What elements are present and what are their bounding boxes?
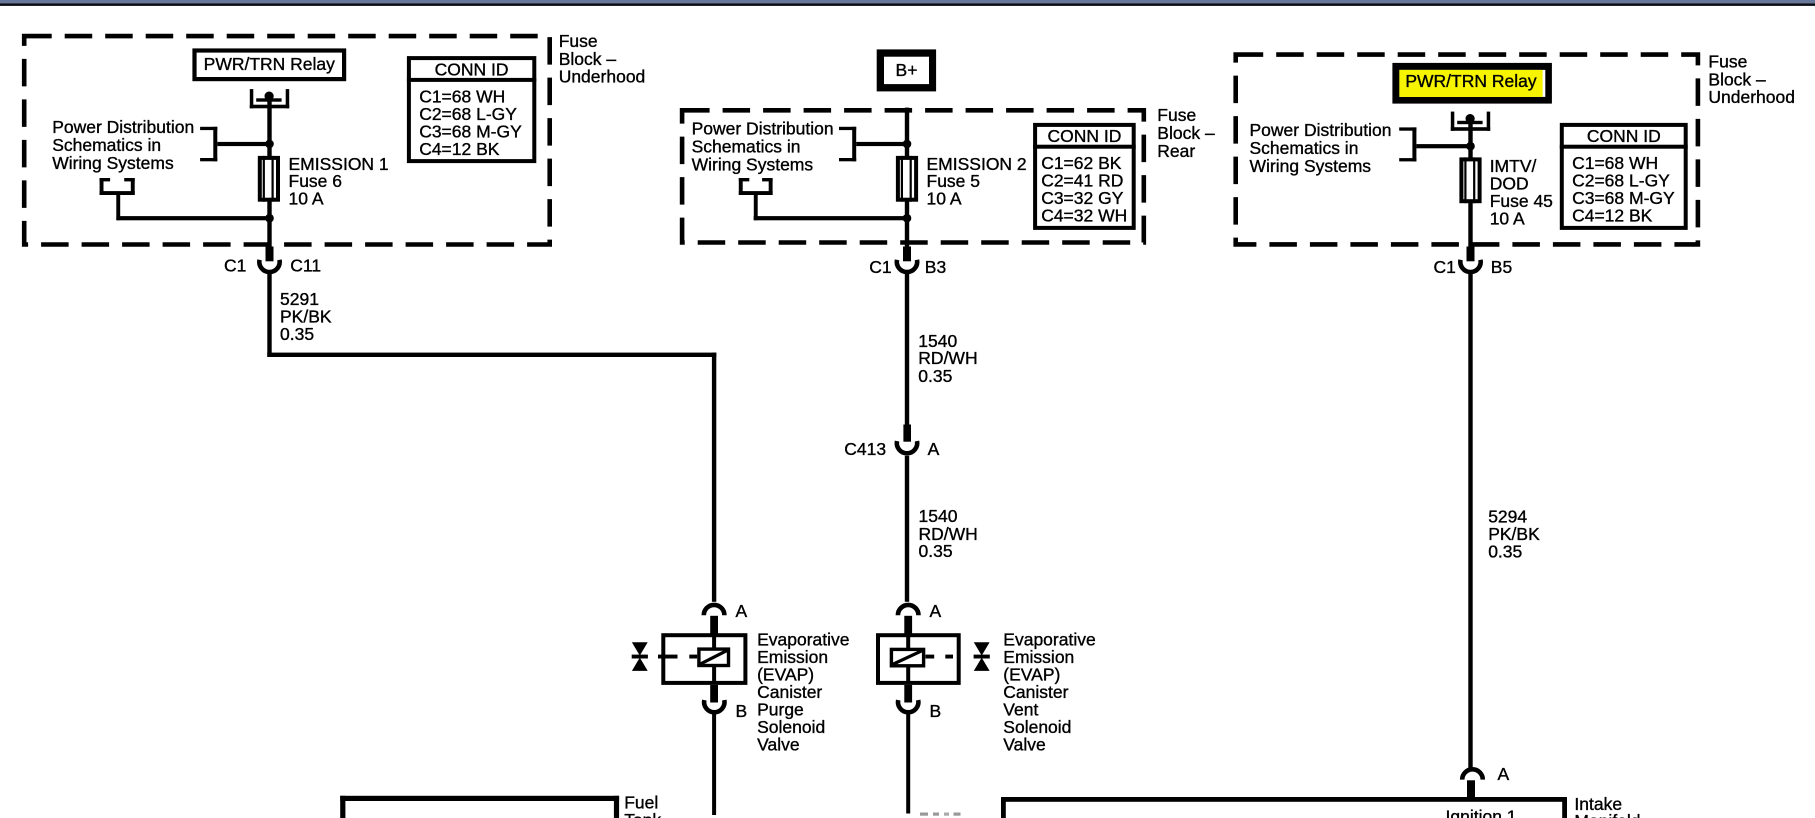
svg-text:0.35: 0.35 <box>918 366 952 386</box>
svg-text:CONN ID: CONN ID <box>1587 126 1661 146</box>
wire: vent solenoid B down (cut off) <box>906 714 910 814</box>
note: Power Distribution Schematics in Wiring Systems (right) <box>1250 120 1392 176</box>
svg-text:A: A <box>928 439 940 459</box>
node: relay-fuse junction (right) <box>1466 142 1475 151</box>
svg-text:Wiring Systems: Wiring Systems <box>52 153 174 173</box>
svg-text:Power Distribution: Power Distribution <box>692 119 834 139</box>
svg-text:A: A <box>736 601 748 621</box>
label: Fuse Block - Underhood (left) <box>559 31 646 87</box>
label: Ignition 1 (inside box, cut off) <box>1446 807 1517 818</box>
value label: EMISSION 2 Fuse 5 10 A <box>927 154 1027 209</box>
svg-text:C1: C1 <box>869 257 891 277</box>
node: fuse output junction (left) <box>265 214 274 223</box>
bracket: lower reference tap (left) <box>100 178 270 220</box>
svg-text:C4=32 WH: C4=32 WH <box>1041 206 1127 226</box>
svg-text:Underhood: Underhood <box>559 67 646 87</box>
svg-text:B: B <box>736 701 748 721</box>
fuel tank component box (cut off at page bottom) <box>340 796 619 818</box>
svg-text:Ignition 1: Ignition 1 <box>1446 807 1517 818</box>
label: Evaporative Emission (EVAP) Canister Purge Solenoid Valve <box>757 630 849 755</box>
label: wire 5291 PK/BK 0.35 <box>280 289 332 344</box>
fuse block underhood (left) dashed enclosure <box>24 36 550 244</box>
svg-text:Valve: Valve <box>757 735 799 755</box>
svg-text:Tank: Tank <box>624 810 661 818</box>
label: Intake Manifold (cut off) <box>1574 794 1640 818</box>
connector C1 pin C11 (fuse block underhood left) <box>224 247 321 276</box>
cut-off text remnant below vent wire <box>920 813 961 816</box>
wire 1540 RD/WH 0.35 (B3 to C413) <box>905 274 909 425</box>
svg-text:B+: B+ <box>896 60 918 80</box>
wire 1540 RD/WH 0.35 (C413 to vent solenoid) <box>905 456 909 602</box>
svg-text:Schematics in: Schematics in <box>52 135 161 155</box>
svg-text:CONN ID: CONN ID <box>1047 126 1121 146</box>
note: Power Distribution Schematics in Wiring Systems (left) <box>52 117 194 173</box>
wire: purge solenoid B to fuel tank (cut off) <box>712 714 716 816</box>
label: wire 5294 PK/BK 0.35 <box>1488 507 1540 562</box>
svg-text:CONN ID: CONN ID <box>435 59 509 79</box>
header bar <box>0 0 1815 6</box>
relay contact symbol (right) <box>1451 112 1490 131</box>
svg-text:B3: B3 <box>925 257 946 277</box>
label: Evaporative Emission (EVAP) Canister Vent Solenoid Valve <box>1003 630 1095 755</box>
relay contact symbol (left) <box>250 89 289 108</box>
svg-text:Valve: Valve <box>1003 735 1045 755</box>
EVAP canister vent solenoid valve Q (coil box) <box>878 635 990 683</box>
bracket: power distribution tap (left) <box>200 127 269 162</box>
svg-text:C4=12 BK: C4=12 BK <box>419 139 500 159</box>
svg-text:PWR/TRN Relay: PWR/TRN Relay <box>204 54 336 74</box>
CONN ID table (left fuse block) <box>407 58 536 161</box>
value label: EMISSION 1 Fuse 6 10 A <box>289 154 389 209</box>
intake manifold component box (cut off at page bottom) <box>1001 797 1567 818</box>
connector pin A (EVAP vent solenoid) <box>898 601 942 634</box>
svg-text:Power Distribution: Power Distribution <box>1250 120 1392 140</box>
CONN ID table (right fuse block) <box>1560 125 1688 228</box>
svg-text:A: A <box>930 601 942 621</box>
svg-text:Schematics in: Schematics in <box>1250 138 1359 158</box>
svg-text:C4=12 BK: C4=12 BK <box>1572 206 1653 226</box>
node: B+/fuse junction (middle) <box>903 140 912 149</box>
wire: relay to fuse IMTV/DOD (right vertical feed) <box>1468 120 1472 246</box>
svg-text:Wiring Systems: Wiring Systems <box>1250 156 1372 176</box>
svg-text:B: B <box>930 701 942 721</box>
fuse F5 EMISSION 2 10A <box>898 156 916 202</box>
svg-text:Power Distribution: Power Distribution <box>52 117 194 137</box>
svg-text:C1: C1 <box>224 255 246 275</box>
svg-text:PWR/TRN Relay: PWR/TRN Relay <box>1405 71 1537 91</box>
inline connector C413 pin A <box>844 425 939 459</box>
svg-text:0.35: 0.35 <box>280 324 314 344</box>
label: Fuse Block - Underhood (right) <box>1708 52 1795 108</box>
wire: B+ feed through fuse EMISSION 2 <box>905 108 909 247</box>
svg-text:C11: C11 <box>290 255 321 275</box>
label: wire 1540 RD/WH 0.35 (lower) <box>919 506 978 561</box>
svg-text:Wiring Systems: Wiring Systems <box>692 155 814 175</box>
svg-text:C1: C1 <box>1434 257 1456 277</box>
connector C1 pin B3 (fuse block rear) <box>869 247 946 277</box>
fuse F6 EMISSION 1 10A (left) <box>260 156 278 202</box>
EVAP canister purge solenoid valve Q (coil box) <box>632 635 746 683</box>
bracket: power distribution tap (right) <box>1399 127 1470 161</box>
fuse F45 IMTV/DOD 10A <box>1461 157 1479 203</box>
svg-text:Rear: Rear <box>1157 141 1195 161</box>
CONN ID table (fuse block rear) <box>1033 125 1136 228</box>
connector pin A (intake manifold / ignition 1) <box>1462 764 1509 797</box>
svg-text:10 A: 10 A <box>927 189 962 209</box>
label: wire 1540 RD/WH 0.35 (upper) <box>918 331 977 386</box>
svg-text:Manifold: Manifold <box>1574 811 1640 818</box>
wire 5294 PK/BK 0.35 (B5 to intake manifold) <box>1468 274 1472 768</box>
fuse block underhood (right) dashed enclosure <box>1236 55 1698 245</box>
connector C1 pin B5 (fuse block underhood right) <box>1434 247 1513 277</box>
value label: IMTV/ DOD Fuse 45 10 A <box>1490 156 1553 229</box>
svg-text:0.35: 0.35 <box>919 541 953 561</box>
svg-text:B5: B5 <box>1491 257 1512 277</box>
svg-text:C413: C413 <box>844 439 886 459</box>
relay PWR/TRN Relay label box (left) <box>195 51 345 80</box>
fuse block rear dashed enclosure <box>682 110 1144 242</box>
svg-text:A: A <box>1498 764 1510 784</box>
connector pin B (EVAP vent solenoid) <box>898 685 941 721</box>
note: Power Distribution Schematics in Wiring Systems (middle) <box>692 119 834 175</box>
wire segment: vertical down to purge solenoid A <box>712 353 716 602</box>
relay PWR/TRN Relay label box (right, highlighted) <box>1392 63 1552 104</box>
svg-text:Schematics in: Schematics in <box>692 137 801 157</box>
wire: relay to fuse EMISSION 1 (left vertical feed) <box>267 98 271 247</box>
connector pin A (EVAP purge solenoid) <box>704 601 748 634</box>
svg-text:0.35: 0.35 <box>1488 542 1522 562</box>
node: fuse output junction (middle) <box>903 214 912 223</box>
wire 5291 PK/BK 0.35 (vertical from C11) <box>267 274 271 357</box>
label: Fuse Block - Rear <box>1157 105 1215 161</box>
power node B+ <box>877 49 936 91</box>
wire segment: horizontal run to purge solenoid <box>267 353 716 357</box>
bracket: lower reference tap (middle) <box>739 178 907 220</box>
node: relay-fuse junction (left) <box>265 140 274 149</box>
svg-text:10 A: 10 A <box>1490 209 1525 229</box>
connector pin B (EVAP purge solenoid) <box>704 685 747 721</box>
label: Fuel Tank <box>624 792 661 818</box>
svg-text:Underhood: Underhood <box>1708 87 1795 107</box>
bracket: power distribution tap (middle) <box>839 127 907 162</box>
svg-text:10 A: 10 A <box>289 189 324 209</box>
